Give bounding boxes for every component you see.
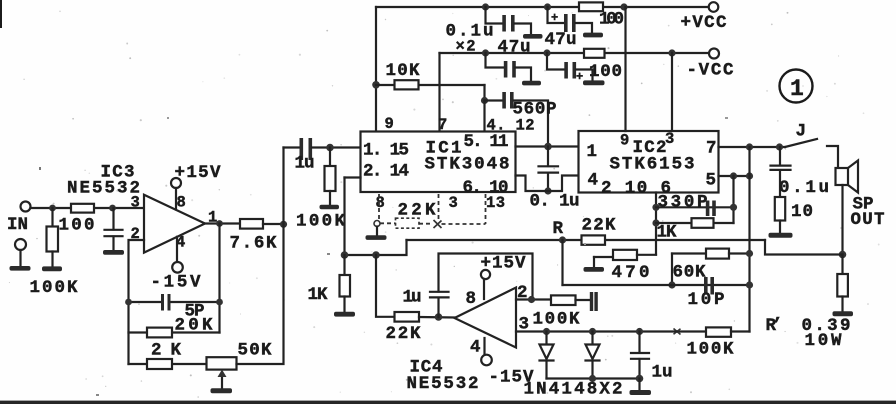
node 1K left: [652, 219, 659, 226]
speaker cone: [848, 161, 858, 193]
wire to ground clamp: [638, 379, 640, 390]
resistor 100K (input shunt) vertical: [51, 208, 53, 227]
capacitor 330P: [706, 201, 710, 217]
x mark on rail: [674, 329, 681, 335]
bottom border line: [0, 401, 896, 404]
diode D1 1N4148: [545, 332, 547, 345]
node diode2 bottom: [589, 375, 596, 382]
wire pin 5.11 row to IC2 pin1: [516, 145, 579, 147]
node diode2 top: [589, 328, 596, 335]
node second rail 47u: [482, 49, 489, 56]
wire pin9 lead from +VCC rail: [624, 7, 626, 131]
wire input row: [31, 207, 145, 209]
svg-text:50K: 50K: [238, 341, 272, 361]
svg-text:22K: 22K: [386, 324, 421, 344]
wire IC4 column from R row down: [561, 240, 563, 285]
svg-text:1N4148X2: 1N4148X2: [524, 380, 623, 400]
node input/100K junction: [49, 205, 56, 212]
svg-text:8: 8: [177, 194, 186, 212]
node diode1 top: [543, 328, 550, 335]
wire 330P row: [656, 206, 734, 208]
svg-text:10P: 10P: [688, 290, 725, 310]
resistor 10 zobel vertical: [775, 197, 785, 221]
node 560P/pin11: [544, 143, 552, 151]
wire 1K row: [656, 222, 734, 224]
svg-text:9: 9: [620, 132, 629, 150]
wire pin2.14 stub: [345, 176, 361, 178]
wire 10 to ground: [779, 221, 781, 233]
svg-text:9: 9: [385, 115, 394, 133]
node pin5/1K column: [730, 172, 737, 179]
svg-text:OUT: OUT: [851, 210, 885, 230]
svg-text:10W: 10W: [805, 331, 842, 351]
wire 10K row: [376, 84, 485, 86]
node 330P left: [652, 204, 659, 211]
potentiometer 50K body: [207, 357, 237, 369]
wire 22K column down: [376, 255, 395, 317]
wire pin2 stub: [129, 240, 145, 364]
capacitor 1u integrator: [437, 298, 439, 317]
ground 100 second: [583, 80, 605, 85]
node top rail 47u: [544, 3, 551, 10]
wire diode bottom rail: [547, 377, 640, 379]
wire 100K lower row (pin3 rail right): [677, 330, 706, 332]
ground 1K IC4: [334, 312, 355, 317]
wire 100K lower to fb column: [731, 330, 750, 332]
wire pin3 lead from -VCC rail: [671, 53, 673, 131]
svg-text:100K: 100K: [687, 340, 734, 360]
svg-text:4: 4: [470, 338, 481, 358]
resistor 100 series: [71, 204, 94, 213]
capacitor 100 (second rail, polarized): [547, 53, 565, 70]
ground 47u second: [522, 81, 541, 86]
svg-text:3: 3: [131, 194, 140, 212]
wire 1u to IC1 pin1.15: [312, 146, 361, 148]
capacitor 47u (second rail): [486, 53, 505, 68]
dashed lead pin8: [378, 194, 380, 219]
svg-text:8: 8: [376, 194, 385, 212]
wire 560P node to cap: [485, 99, 503, 101]
capacitor 10P: [704, 277, 708, 295]
resistor 100 (top rail): [579, 2, 603, 11]
capacitor 0.1u interstage: [547, 147, 549, 167]
wire output node down to feedback: [218, 224, 220, 333]
svg-text:-15V: -15V: [151, 273, 201, 293]
wire pin7 row: [719, 146, 786, 148]
IC U2 STK6153 box: [579, 131, 719, 193]
node top rail pin9: [620, 3, 627, 10]
wire second rail left corner down to IC1 pin7: [438, 53, 440, 132]
wire 0.39 to ground: [841, 297, 843, 312]
-VCC terminal circle: [709, 49, 719, 59]
svg-text:2. 14: 2. 14: [363, 162, 409, 182]
node 1u/100K junction: [326, 144, 334, 152]
svg-text:STK3048: STK3048: [425, 155, 510, 175]
node 1u cap top: [636, 328, 643, 335]
wire 60K row: [672, 252, 706, 254]
speaker box: [836, 168, 849, 185]
+15V circle (IC4): [481, 270, 490, 279]
svg-text:IN: IN: [7, 215, 28, 235]
wire feedback row 20K: [129, 331, 220, 333]
node pin7/feedback column: [746, 143, 753, 150]
node 0.1u bottom: [544, 187, 551, 194]
svg-text:330P: 330P: [658, 193, 708, 213]
resistor 1K (IC2 fb): [692, 218, 714, 228]
circled figure number 1: [780, 70, 813, 103]
svg-text:2K: 2K: [151, 341, 181, 361]
svg-text:0. 1u: 0. 1u: [530, 192, 580, 212]
wire 60K left column down: [671, 254, 673, 286]
svg-text:100: 100: [589, 62, 622, 82]
node 10P row left-mid: [668, 281, 675, 288]
node 330P right: [730, 204, 737, 211]
wire pin4 to -15V: [176, 237, 178, 262]
resistor 0.39 vertical: [837, 274, 848, 297]
svg-text:7: 7: [438, 116, 447, 134]
ground 0.1u top: [523, 34, 543, 39]
wire switch right to speaker: [827, 146, 838, 168]
node pin2 junction: [528, 296, 535, 303]
svg-text:+15V: +15V: [481, 254, 526, 274]
capacitor 1u clamp: [638, 332, 640, 353]
ground pin8: [366, 235, 387, 240]
svg-text:10K: 10K: [386, 61, 420, 81]
node second rail 100u: [543, 49, 550, 56]
svg-text:100K: 100K: [533, 310, 580, 330]
wire 10K row corner down to 560P node: [483, 85, 485, 101]
svg-text:1u: 1u: [652, 363, 673, 383]
wire pin6 column IC2: [655, 193, 657, 255]
node wireA/1K-gnd junction: [341, 251, 349, 259]
svg-text:1. 15: 1. 15: [363, 141, 409, 161]
op-amp IC4 triangle (pointing left): [455, 288, 517, 348]
wire pin4 to -15V: [483, 338, 485, 355]
ground under input cap: [103, 250, 124, 255]
ground under pot wiper: [211, 388, 233, 393]
SEC-INPUT: [7, 202, 144, 299]
resistor 100K lower right: [706, 327, 731, 336]
x junction mark: [434, 220, 442, 228]
SEC-IC3: [67, 148, 287, 394]
svg-text:100K: 100K: [296, 212, 345, 232]
svg-text:J: J: [796, 122, 807, 142]
-15V circle (IC4): [481, 355, 492, 366]
svg-text:+15V: +15V: [175, 163, 221, 183]
SEC-IC2: [579, 7, 839, 199]
svg-text:R: R: [553, 219, 564, 239]
svg-text:13: 13: [486, 194, 505, 212]
node R row / IC4 column: [559, 236, 566, 243]
node 10K left junction: [372, 81, 380, 89]
ground zobel: [769, 233, 793, 238]
node 1u bottom / ground: [636, 375, 644, 383]
svg-text:100: 100: [599, 10, 624, 30]
capacitor 0.1u (top rail): [486, 7, 503, 24]
node pin7/0.1u: [776, 143, 783, 150]
ground 470: [584, 267, 605, 272]
svg-text:STK6153: STK6153: [610, 155, 695, 175]
ground under 100K: [320, 205, 340, 210]
wire output node to 0.39: [841, 255, 843, 275]
resistor 1K to ground (IC4): [343, 255, 345, 275]
svg-text:1: 1: [587, 142, 598, 162]
capacitor 47u (top rail, polarized): [548, 7, 565, 23]
wire pot right to output column: [237, 148, 284, 365]
ground 47u top: [583, 33, 603, 38]
wire coupling row to 1u cap: [284, 146, 302, 148]
svg-text:1K: 1K: [308, 285, 328, 305]
svg-text:7.6K: 7.6K: [230, 234, 277, 254]
wire 60K right: [729, 252, 750, 254]
node 100/pin3 junction: [109, 205, 116, 212]
wire +15V to pin8: [175, 188, 177, 210]
ground clamp: [630, 390, 652, 395]
wire top rail left corner down to 10K row and IC1 pin9: [375, 7, 377, 132]
scan speckles: [39, 167, 41, 170]
ground under resistor 100K: [42, 266, 62, 271]
diode D2 1N4148: [591, 332, 593, 345]
svg-text:7: 7: [706, 139, 717, 159]
resistor 20K: [147, 328, 172, 338]
capacitor stub double-bar: [590, 292, 593, 311]
pot wiper arrow: [221, 373, 223, 388]
left edge scan tick: [0, 0, 2, 28]
resistor 470: [613, 250, 637, 260]
SEC-RAILS: [372, 2, 734, 146]
svg-text:1: 1: [790, 76, 804, 102]
node output/R': [839, 251, 847, 259]
wire pin5 fb column upper: [732, 176, 734, 223]
svg-text:100: 100: [59, 216, 95, 236]
resistor 2K: [147, 359, 172, 369]
input terminal circle bottom: [15, 239, 26, 250]
wire U-shape pin6.10 to IC2 pin4: [516, 176, 579, 192]
dashed lead left of 22K: [380, 222, 396, 224]
SEC-IC4: [308, 251, 678, 399]
node output junction: [216, 220, 223, 227]
+VCC terminal circle: [709, 2, 719, 12]
wire feedback row 5P: [129, 301, 220, 303]
svg-text:0.1u: 0.1u: [779, 178, 829, 198]
svg-text:60K: 60K: [673, 263, 706, 283]
capacitor 1u coupling: [300, 138, 304, 160]
svg-text:-VCC: -VCC: [687, 61, 734, 81]
svg-text:3: 3: [449, 194, 458, 212]
resistor 22K (IC4 input): [395, 312, 420, 322]
node 5P left: [125, 299, 132, 306]
ground 0.39: [833, 311, 854, 316]
node 22K/1u junction: [435, 313, 443, 321]
node 5P right: [216, 299, 223, 306]
wire output pin1: [205, 222, 240, 224]
small circle pin8 node: [374, 221, 380, 227]
SEC-COUPLING: [284, 138, 361, 232]
capacitor 0.1u zobel: [779, 147, 781, 165]
svg-text:4: 4: [588, 171, 599, 191]
resistor 100 (second rail): [584, 49, 605, 58]
wire pin2.14 down to IC4 net: [343, 178, 345, 256]
resistor 22K dashed body: [396, 218, 420, 228]
IC U1 STK3048 box: [361, 132, 516, 193]
wire input terminal2 to ground: [19, 250, 21, 266]
wire pin8 to ground: [376, 227, 378, 235]
node 7.6K output column junction: [280, 221, 287, 228]
input terminal circle top: [21, 202, 31, 212]
wire 470 row: [594, 256, 613, 258]
capacitor 560P: [502, 92, 506, 109]
op-amp IC3 triangle: [144, 195, 205, 253]
resistor R 22K: [582, 235, 606, 244]
svg-text:R’: R’: [766, 316, 783, 336]
node top rail 0.1u: [482, 3, 489, 10]
wire row 2K: [129, 363, 207, 365]
wire 560P to corner: [514, 101, 549, 147]
wire pin2 row: [516, 298, 551, 300]
node 60K right: [746, 250, 753, 257]
ground under input terminal2: [10, 266, 31, 271]
svg-text:100K: 100K: [30, 278, 78, 298]
wire 100K right: [576, 299, 591, 301]
resistor 100K (pin2): [551, 295, 576, 305]
node 10P right: [746, 281, 753, 288]
wire R row: [407, 239, 766, 241]
resistor 100K to ground (IC1 input): [329, 148, 331, 167]
svg-text:NE5532: NE5532: [67, 179, 140, 199]
svg-text:47u: 47u: [545, 30, 577, 50]
svg-text:+VCC: +VCC: [681, 13, 727, 33]
wire +VCC top rail: [376, 6, 709, 8]
svg-text:8: 8: [466, 289, 477, 309]
svg-text:1u: 1u: [295, 154, 315, 174]
node pin5/feedback column: [746, 172, 753, 179]
svg-text:5. 11: 5. 11: [464, 132, 509, 152]
wire -VCC second rail: [440, 52, 710, 54]
svg-text:1u: 1u: [403, 288, 422, 308]
dashed row to pin13: [442, 223, 486, 225]
wire pin3 rail: [516, 330, 677, 332]
wire pin4 lead IC1: [483, 101, 485, 132]
svg-text:47u: 47u: [498, 38, 531, 58]
svg-text:470: 470: [612, 263, 650, 283]
svg-text:22K: 22K: [582, 216, 616, 236]
node 560P junction: [481, 97, 488, 104]
capacitor input bypass to ground: [112, 208, 114, 230]
wire main fb column x749: [748, 147, 750, 332]
-15V terminal circle (IC3): [172, 262, 183, 273]
dashed lead pin13: [485, 194, 487, 224]
svg-text:3: 3: [665, 130, 674, 148]
svg-text:+: +: [576, 70, 583, 84]
SEC-FB2: [345, 147, 766, 360]
wire 22K to apex: [419, 316, 455, 319]
wire +15V to pin8: [483, 279, 485, 299]
svg-text:10: 10: [791, 202, 813, 222]
svg-text:5: 5: [706, 171, 717, 191]
resistor 7.6K: [240, 219, 263, 229]
wire 10P row: [563, 284, 750, 286]
+15V terminal circle (IC3): [171, 178, 181, 188]
dashed lead pin3: [438, 194, 440, 219]
svg-text:+: +: [551, 11, 558, 25]
dashed lead right of 22K: [419, 223, 433, 225]
SEC-OUT: [765, 147, 885, 351]
wire 470 right to pin6 column: [637, 254, 656, 256]
wire 470 left to ground: [593, 257, 595, 267]
wire speaker bottom down to output node: [841, 185, 843, 255]
wire R row step left: [345, 240, 407, 255]
resistor 60K: [706, 249, 729, 259]
wire pin5 row: [719, 175, 750, 177]
SEC-IC1: [345, 115, 580, 255]
wire R-row jog to output node: [765, 240, 843, 255]
node wireA/22K column junction: [372, 251, 380, 259]
capacitor 5P: [161, 294, 164, 311]
resistor 10K: [395, 80, 419, 89]
node second rail pin3 IC2: [668, 49, 675, 56]
switch J blade: [785, 139, 817, 147]
